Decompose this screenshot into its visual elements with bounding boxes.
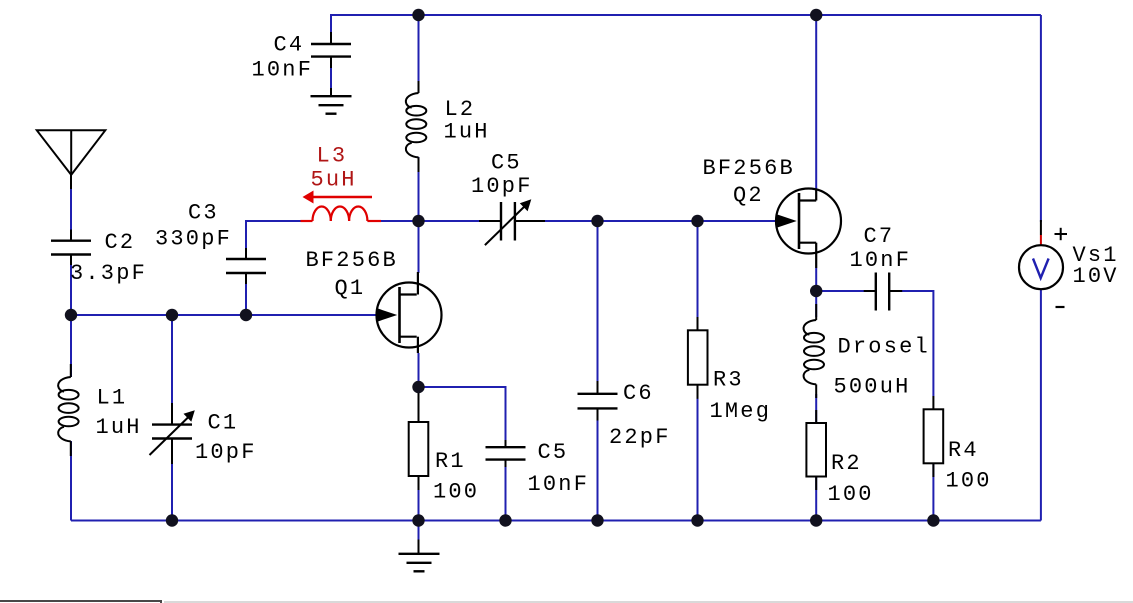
svg-text:L3: L3 — [317, 144, 348, 169]
svg-text:BF256B: BF256B — [703, 156, 795, 181]
svg-text:1uH: 1uH — [96, 415, 142, 440]
wire row3 gate — [71, 314, 377, 316]
svg-text:Q2: Q2 — [733, 183, 764, 208]
svg-text:100: 100 — [828, 482, 874, 507]
svg-text:C4: C4 — [274, 33, 305, 58]
wire Vs1 bottom — [1040, 289, 1042, 521]
node bottom-C1 — [166, 514, 178, 526]
resistor R4 — [924, 396, 944, 477]
L3 arrow (red) — [303, 191, 373, 204]
node bottom-C5b — [499, 514, 511, 526]
svg-text:C5: C5 — [491, 151, 522, 176]
svg-text:C3: C3 — [188, 201, 219, 226]
wire node to C5 variable — [419, 220, 480, 222]
wire C3 branch — [245, 273, 247, 315]
svg-text:10V: 10V — [1073, 264, 1119, 289]
wire L2 top — [418, 15, 420, 93]
svg-text:1Meg: 1Meg — [710, 399, 772, 424]
wire Q1 source to node — [418, 353, 420, 387]
resistor R3 — [688, 317, 708, 399]
wire right rail — [1040, 15, 1042, 222]
wire L1 bottom — [70, 441, 72, 521]
svg-text:L1: L1 — [97, 386, 128, 411]
svg-text:10nF: 10nF — [850, 248, 912, 273]
node row2-L2/L3 — [412, 215, 424, 227]
svg-text:R2: R2 — [831, 451, 862, 476]
svg-text:10pF: 10pF — [471, 174, 533, 199]
capacitor C2 — [51, 230, 91, 266]
transistor Q2 (BF256B) — [776, 189, 841, 254]
node row3-C1 — [166, 309, 178, 321]
svg-text:Q1: Q1 — [335, 276, 366, 301]
svg-text:R4: R4 — [948, 438, 979, 463]
wire node387 to C5b — [419, 387, 506, 440]
wire C1 branch — [171, 315, 173, 425]
svg-text:1uH: 1uH — [444, 120, 490, 145]
svg-text:5uH: 5uH — [311, 168, 357, 193]
wire R1 — [418, 387, 420, 422]
wire Drosel top — [815, 291, 817, 317]
wire R4 bottom — [932, 463, 934, 521]
inductor L3 (red) — [301, 207, 382, 222]
svg-text:C5: C5 — [538, 440, 569, 465]
node bottom-R3 — [691, 514, 703, 526]
node bottom-R1/gnd — [412, 514, 424, 526]
wire Q1 drain — [418, 221, 420, 273]
inductor L2 — [406, 93, 426, 157]
wire C6 branch — [597, 221, 599, 382]
svg-text:10pF: 10pF — [195, 440, 257, 465]
antenna — [37, 130, 106, 189]
node bottom-R4 — [927, 514, 939, 526]
inductor Drosel — [804, 320, 824, 384]
svg-text:L2: L2 — [445, 97, 476, 122]
node bottom-C6 — [591, 514, 603, 526]
capacitor C5 (10nF) — [486, 440, 526, 467]
svg-text:C1: C1 — [208, 411, 239, 436]
wire R2 bottom — [815, 476, 817, 521]
variable capacitor C1 — [150, 403, 195, 464]
resistor R1 — [409, 393, 429, 490]
svg-text:Drosel: Drosel — [838, 335, 930, 360]
svg-text:500uH: 500uH — [834, 375, 911, 400]
wire node291 to C7 — [816, 290, 864, 292]
svg-text:C2: C2 — [105, 230, 136, 255]
capacitor C3 — [226, 248, 266, 284]
svg-text:100: 100 — [946, 469, 992, 494]
capacitor C7 — [864, 273, 903, 311]
capacitor C4 — [311, 32, 351, 68]
svg-text:100: 100 — [433, 480, 479, 505]
svg-text:R3: R3 — [713, 368, 744, 393]
voltage source Vs1 — [1019, 220, 1067, 307]
svg-text:C7: C7 — [864, 224, 895, 249]
svg-text:3.3pF: 3.3pF — [70, 261, 147, 286]
node Q1 source — [412, 381, 424, 393]
wire C2 to node row3 — [70, 254, 72, 315]
ground below C4 — [330, 88, 332, 96]
wire C5b bottom — [505, 467, 507, 521]
wire bottom rail — [71, 520, 1041, 522]
node bottom-R2 — [810, 514, 822, 526]
svg-text:330pF: 330pF — [155, 227, 232, 252]
capacitor C6 — [578, 381, 618, 421]
node row3-C3 — [240, 309, 252, 321]
wire Q2 source to node291 — [815, 268, 817, 291]
node top-Q2 — [810, 9, 822, 21]
node row2-C6 — [591, 215, 603, 227]
wire Drosel to R2 — [815, 394, 817, 423]
node Q2 source/C7 — [810, 285, 822, 297]
svg-text:22pF: 22pF — [609, 425, 671, 450]
wire C4 to ground — [330, 57, 332, 96]
transistor Q1 (BF256B) — [377, 283, 442, 348]
variable capacitor C5 (10pF) — [479, 199, 545, 245]
wire R3 branch — [697, 221, 699, 317]
svg-text:C6: C6 — [623, 381, 654, 406]
wire top rail — [331, 14, 1041, 16]
wire gnd stem bottom — [418, 521, 420, 542]
ground bottom — [418, 540, 420, 554]
wire L2 bottom to node row2 — [418, 157, 420, 221]
bottom tab bar — [164, 601, 1133, 603]
resistor R2 — [806, 423, 826, 490]
node row2-R3 — [691, 215, 703, 227]
inductor L1 — [58, 377, 78, 441]
wire L3 right to node — [381, 220, 419, 222]
wire C4 stem — [330, 14, 332, 43]
wire antenna to C2 — [70, 175, 72, 241]
node row3-C2/L1 — [65, 309, 77, 321]
svg-text:BF256B: BF256B — [306, 248, 398, 273]
svg-text:10nF: 10nF — [252, 58, 314, 83]
node top-L2 — [412, 9, 424, 21]
svg-text:10nF: 10nF — [528, 472, 590, 497]
svg-text:R1: R1 — [435, 449, 466, 474]
wire C5 variable to Q2 gate — [545, 220, 777, 222]
wire Q2 drain — [815, 15, 817, 190]
wire L1 top — [70, 315, 72, 377]
wire C7 to R4 — [902, 291, 933, 396]
